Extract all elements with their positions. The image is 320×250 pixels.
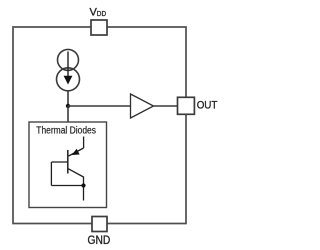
wire stub to transistor emitter [83,137,85,149]
label VDD [90,6,107,18]
pin VDD square [91,20,107,35]
node B junction (base-collector tie) [81,183,85,187]
svg-text:OUT: OUT [197,100,218,112]
wire base-collector loop [51,162,83,186]
wire current source to node A [67,90,69,106]
IC boundary outer box [13,27,186,224]
wire node A to buffer input [68,105,131,107]
wire buffer output to OUT pin [154,105,178,107]
svg-text:Thermal Diodes: Thermal Diodes [36,125,96,136]
wire node A down to thermal diodes box [67,106,69,122]
thermal diodes box [29,122,107,208]
svg-text:GND: GND [88,235,111,247]
current source I1 [57,49,80,90]
pin OUT square [178,97,195,114]
svg-text:DD: DD [97,9,106,18]
transistor Q1 (diode-connected PNP) [68,148,84,201]
node A junction [66,104,70,108]
buffer amplifier U1 [131,94,154,118]
pin GND square [92,217,107,232]
